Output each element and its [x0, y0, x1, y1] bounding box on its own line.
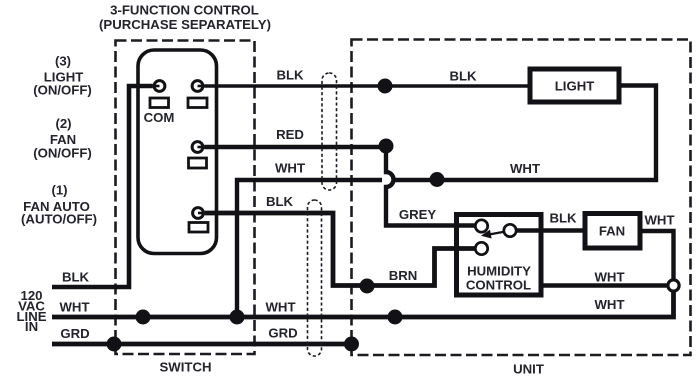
svg-text:BLK: BLK — [62, 270, 90, 285]
3-function control switch body — [138, 50, 217, 254]
svg-text:WHT: WHT — [265, 300, 295, 315]
humidity control box — [457, 215, 542, 296]
svg-text:BRN: BRN — [389, 268, 418, 283]
label 120 VAC LINE IN — [16, 288, 46, 334]
svg-text:HUMIDITY: HUMIDITY — [467, 264, 531, 279]
junction dot on RED — [379, 139, 394, 154]
svg-text:(AUTO/OFF): (AUTO/OFF) — [21, 212, 97, 227]
svg-text:BLK: BLK — [449, 69, 477, 84]
svg-text:UNIT: UNIT — [513, 361, 544, 376]
light box — [530, 69, 619, 102]
svg-text:GRD: GRD — [60, 326, 89, 341]
svg-text:SWITCH: SWITCH — [159, 359, 211, 374]
svg-text:FAN: FAN — [599, 224, 625, 239]
svg-text:(2): (2) — [55, 116, 71, 131]
svg-text:WHT: WHT — [275, 161, 305, 176]
wire BLK/BRN from terminal 1 — [205, 213, 475, 286]
label (1) FAN AUTO (AUTO/OFF) — [21, 183, 97, 227]
wire BLK switch to light — [204, 84, 530, 88]
wire WHT fan return — [640, 231, 674, 279]
humidity terminal B — [475, 242, 487, 254]
svg-text:BLK: BLK — [266, 194, 294, 209]
wire GRD — [52, 342, 352, 347]
svg-text:(3): (3) — [55, 54, 71, 69]
unit enclosure dashed box — [352, 40, 691, 356]
svg-text:CONTROL: CONTROL — [466, 278, 531, 293]
wire connector (wire nut) — [668, 280, 679, 291]
svg-text:(PURCHASE SEPARATELY): (PURCHASE SEPARATELY) — [99, 17, 271, 32]
junction dot on BLK — [378, 79, 393, 94]
svg-text:3-FUNCTION CONTROL: 3-FUNCTION CONTROL — [110, 2, 259, 17]
junction dot WHT neutral 3 — [388, 310, 403, 325]
svg-text:WHT: WHT — [510, 161, 540, 176]
label (2) FAN (ON/OFF) — [33, 116, 92, 161]
svg-text:RED: RED — [276, 127, 304, 142]
wire WHT neutral bottom — [52, 293, 674, 318]
svg-text:WHT: WHT — [594, 297, 624, 312]
svg-text:COM: COM — [144, 110, 175, 125]
wire BLK humidity to fan — [517, 228, 585, 232]
junction dot on WHT — [430, 172, 445, 187]
junction dot GRD 1 — [107, 337, 122, 352]
svg-text:IN: IN — [25, 319, 38, 334]
wire GREY with hop over WHT — [386, 150, 475, 226]
svg-text:WHT: WHT — [59, 300, 89, 315]
svg-text:(1): (1) — [51, 183, 67, 198]
wire WHT row with riser and light return — [237, 86, 656, 318]
svg-text:LIGHT: LIGHT — [555, 79, 595, 94]
junction dot on BRN — [360, 279, 375, 294]
label (3) LIGHT (ON/OFF) — [33, 54, 92, 98]
wire COM terminal to BLK line in — [52, 86, 153, 287]
title — [99, 2, 271, 32]
terminal 1 (fan auto) — [189, 208, 208, 232]
svg-text:(ON/OFF): (ON/OFF) — [33, 146, 92, 161]
fan box — [585, 214, 640, 249]
terminal COM — [150, 81, 169, 108]
terminal 2 (fan) — [189, 142, 207, 168]
wire WHT humidity to connector — [541, 283, 667, 287]
svg-text:BLK: BLK — [549, 211, 577, 226]
svg-text:GRD: GRD — [268, 326, 297, 341]
switch enclosure dashed box — [116, 41, 255, 355]
cable sheath oval 2 — [308, 200, 322, 356]
label HUMIDITY CONTROL — [466, 264, 531, 293]
svg-text:BLK: BLK — [276, 68, 304, 83]
humidity terminal A — [475, 220, 487, 232]
cable sheath oval 1 — [322, 73, 337, 190]
wire RED — [204, 145, 386, 149]
junction dot WHT neutral 1 — [136, 310, 151, 325]
junction dot WHT neutral 2 — [230, 310, 245, 325]
svg-text:(ON/OFF): (ON/OFF) — [33, 83, 92, 98]
terminal 3 (light) — [188, 81, 207, 108]
svg-text:GREY: GREY — [399, 207, 437, 222]
humidity switch contact — [504, 224, 516, 236]
svg-text:WHT: WHT — [644, 213, 674, 228]
junction dot GRD 2 — [344, 337, 359, 352]
humidity switch arm arrow — [481, 230, 504, 239]
svg-text:WHT: WHT — [594, 269, 624, 284]
